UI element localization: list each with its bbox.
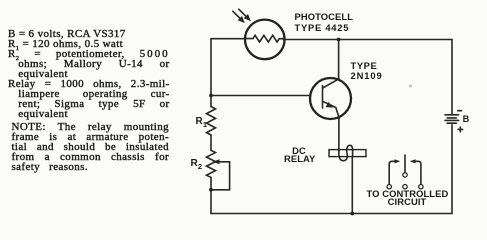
wire: right rail upper (top rail to battery) <box>451 40 453 115</box>
wire: top rail (photocell to right rail) <box>284 39 453 41</box>
wire: left rail lower (R2 to bottom) <box>210 177 212 213</box>
label: DC RELAY <box>284 147 314 162</box>
wire: collector lead down to transistor <box>338 40 340 80</box>
battery B plate 1 (long) <box>445 114 459 116</box>
label: TO CONTROLLED CIRCUIT <box>367 190 448 206</box>
relay contacts: center armature line <box>404 155 406 172</box>
transistor Q1 circle (2N109) <box>310 78 351 119</box>
resistor R1 zigzag <box>207 107 216 135</box>
battery plus sign <box>458 127 463 132</box>
relay contacts: center terminal circle <box>403 185 407 189</box>
relay contacts: center upper circle <box>403 173 407 177</box>
battery B plate 3 (long) <box>445 119 459 121</box>
battery B plate 4 (short thick) <box>447 122 456 124</box>
label: TYPE 2N109 <box>351 61 383 81</box>
note paragraph <box>12 122 170 132</box>
node: collector junction dot <box>337 38 341 42</box>
relay contacts: left arm with arrow <box>389 161 396 184</box>
light arrow 2 <box>239 9 246 16</box>
wire: bottom rail <box>211 213 452 215</box>
wire: left rail between R1 and R2 <box>210 135 212 150</box>
wire: emitter lead down to relay <box>338 119 340 152</box>
relay contacts: left terminal circle <box>387 185 391 189</box>
node: relay output junction dot <box>350 212 354 216</box>
node: base junction dot <box>209 94 213 98</box>
photocell internal resistor zigzag <box>246 35 284 42</box>
label: PHOTOCELL TYPE 4425 <box>295 11 354 33</box>
wire: left rail between node and R1 <box>210 96 212 107</box>
transistor emitter inner lead with arrow <box>323 101 340 118</box>
potentiometer R2 zigzag <box>207 150 216 177</box>
light arrow 1 <box>233 11 240 18</box>
photocell circle <box>245 20 285 60</box>
relay contacts: right terminal circle <box>419 185 423 189</box>
wire: relay output down to bottom rail <box>351 157 353 214</box>
relay coil loop <box>339 145 353 160</box>
battery minus sign <box>458 110 462 112</box>
wire: top-left horizontal (photocell to left rail) <box>211 38 245 40</box>
wire: base lead to transistor <box>211 95 310 97</box>
faint scan speck <box>409 84 412 87</box>
R2 wiper arrow <box>219 161 230 163</box>
label: battery B <box>463 114 470 125</box>
wire: R2 wiper return loop <box>211 162 230 190</box>
label: potentiometer R2 <box>191 158 203 172</box>
wire: left rail upper (down to base node) <box>210 39 212 96</box>
transistor base bar <box>322 86 324 109</box>
node: wiper return junction dot <box>209 188 213 192</box>
wire: right rail lower (battery to bottom) <box>451 125 453 214</box>
relay body box <box>329 150 366 157</box>
transistor collector inner lead <box>323 79 339 88</box>
parts-list text block <box>8 29 126 39</box>
battery B plate 2 (short thick) <box>447 117 456 119</box>
label: resistor R1 <box>196 116 208 130</box>
relay contacts: right arm with arrow <box>414 161 421 184</box>
